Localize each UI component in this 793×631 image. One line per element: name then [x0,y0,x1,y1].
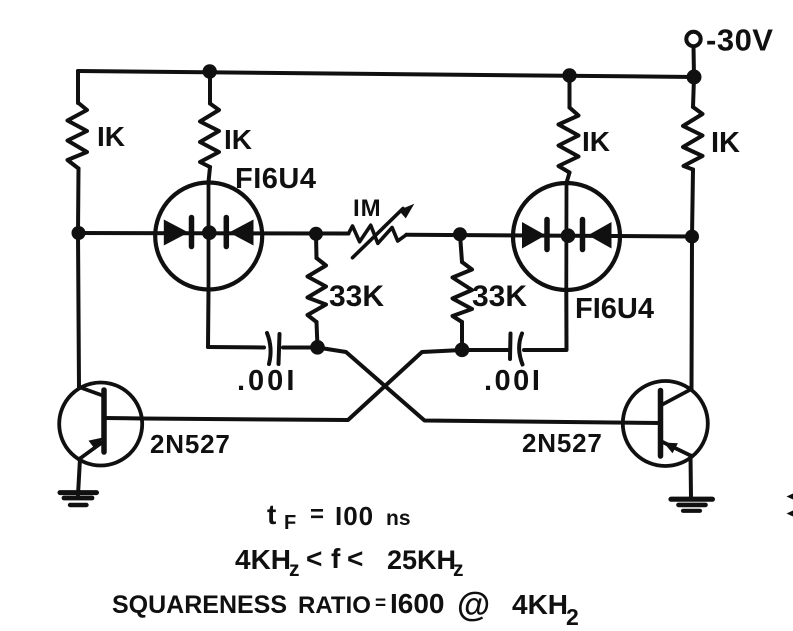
svg-text:I600: I600 [390,588,445,619]
wire left rail upper [76,71,80,103]
svg-text:@: @ [457,586,490,624]
dual diode U1 F16U4 circle [155,183,262,290]
transistor Q2 base bar [658,391,664,457]
resistor R3 1K [559,108,579,173]
diode U2 left (anode left, cathode center) [522,222,546,249]
node dot mid rail / 33K right [453,227,467,241]
node dot C1 / 33K left / cross wire [310,340,325,355]
svg-text:2: 2 [566,604,579,630]
wire 33K right bottom [460,322,464,350]
transistor Q2 emitter arrow [664,443,678,454]
capacitor C1 wire right [283,346,318,350]
label note SQUARENESS RATIO = 1600 @ 4KHz [112,586,579,630]
node dot U1 center [202,225,217,240]
node dot top rail / right rail [687,70,702,85]
svg-text:FI6U4: FI6U4 [575,293,654,325]
wire right rail lower (collector Q2) [690,237,695,390]
capacitor C1 plates [267,333,271,364]
resistor R5 33K [308,258,327,322]
svg-text:SQUARENESS: SQUARENESS [112,591,287,619]
ground Q1 [60,490,97,495]
svg-text:2N527: 2N527 [150,429,231,459]
capacitor C2 .001 wire left [462,348,508,352]
svg-text:2N527: 2N527 [522,428,603,458]
svg-text:ns: ns [386,507,411,530]
wire left rail mid [76,169,81,234]
node dot mid rail / 33K left [309,227,323,241]
transistor Q2 emitter stroke [661,441,691,456]
svg-text:IK: IK [97,121,125,152]
svg-text:FI6U4: FI6U4 [235,163,316,195]
svg-text:25KH: 25KH [387,545,456,575]
node dot top rail / R3 [562,68,576,82]
potentiometer 1M zigzag [349,225,407,243]
svg-text:f: f [331,543,341,574]
svg-text:IM: IM [353,195,382,222]
svg-text:IK: IK [711,127,740,159]
svg-text:33K: 33K [472,280,527,313]
resistor R6 33K [453,262,473,322]
wire right rail mid [692,170,693,237]
wire cross-coupling left node to Q2 base [318,348,661,424]
svg-text:IK: IK [224,124,252,155]
svg-text:z: z [453,558,464,581]
resistor R2 1K [200,104,219,168]
transistor Q1 collector stroke [79,387,104,396]
wire U2 bottom to cap row [524,290,567,350]
label note tF = 100 ns [267,499,411,534]
node dot top rail / R2 [203,64,217,78]
svg-text:.00I: .00I [237,365,297,397]
wire R3 bottom to U2 circle [567,173,570,184]
resistor R1 1K [68,103,88,169]
wire Q1 emitter to ground [78,459,80,496]
svg-text:IK: IK [582,126,610,157]
svg-text:<: < [306,543,322,574]
svg-text:I00: I00 [335,501,374,531]
node dot U2 center [561,228,576,243]
svg-text:<: < [347,543,363,574]
transistor Q1 2N527 circle [59,383,142,466]
transistor Q2 collector stroke [662,389,692,405]
transistor Q1 emitter arrow [89,438,104,450]
wire U1 bottom to cap row [206,290,211,347]
svg-text:t: t [267,499,276,530]
wire R2 bottom to diode circle [209,167,211,182]
dual diode U2 F16U4 circle [513,183,620,290]
svg-text:z: z [289,558,300,581]
transistor Q1 base bar [101,390,107,452]
wire R2 top [208,72,212,104]
wire vertical through U2 circle [564,183,568,290]
label note 4KHz < f < 25KHz [235,543,464,581]
wire Q2 emitter to ground [689,456,694,498]
wire 33K left top [314,234,319,258]
capacitor C1 .001 wire left [208,345,264,350]
diode U1 right (anode right, cathode center) [224,218,230,247]
capacitor C2 plates [508,334,513,360]
stray mark right edge upper [787,494,793,500]
wire R4 top [693,77,694,107]
stray mark right edge lower [787,511,793,517]
transistor Q2 2N527 circle [623,381,708,466]
node dot C2 / 33K right / cross wire [455,343,470,358]
svg-text:-30V: -30V [706,23,773,58]
svg-text:RATIO: RATIO [298,592,371,619]
wire top rail [78,71,694,77]
wire mid rail left [78,231,349,236]
svg-text:=: = [310,501,324,528]
transistor Q1 emitter stroke [80,441,104,459]
wire mid rail right [406,235,692,237]
svg-text:4KH: 4KH [235,544,291,575]
ground Q2 [671,497,712,502]
wire 33K right top [460,235,462,263]
svg-text:.00I: .00I [484,365,542,397]
wire vertical through U1 circle [207,182,211,290]
power terminal -30V [686,32,700,46]
diode U1 left (anode left, cathode center) [164,220,189,246]
diode U2 right (anode right, cathode center) [580,220,586,250]
svg-text:33K: 33K [329,280,384,313]
wire R3 top [568,76,572,108]
resistor R4 1K [683,107,703,170]
svg-text:4KH: 4KH [512,589,568,620]
node dot mid rail / right rail [685,230,699,244]
wire cross-coupling right node to Q1 base [105,350,462,420]
svg-text:F: F [284,512,296,534]
potentiometer 1M arrow [353,209,404,258]
wire 33K left bottom [317,322,318,347]
node A dot (left rail / base rail) [72,226,86,240]
svg-text:=: = [375,593,386,614]
wire left rail lower (collector Q1) [78,233,79,388]
